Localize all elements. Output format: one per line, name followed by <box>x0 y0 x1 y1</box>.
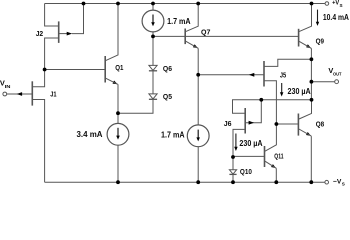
junction dot VOUT node <box>310 80 314 84</box>
wire J5 gate to Q7 emitter node <box>198 74 263 76</box>
junction dot node C <box>151 35 155 39</box>
junction dot bottom rail 3.4mA <box>116 180 120 184</box>
svg-text:10.4 mA: 10.4 mA <box>323 13 349 22</box>
wire node D to Q11 collector <box>265 124 276 151</box>
transistor Q1 <box>105 56 118 84</box>
terminal -VS <box>325 180 329 184</box>
junction dot rail J2 gate <box>82 2 86 6</box>
svg-text:1.7 mA: 1.7 mA <box>167 17 191 26</box>
junction dot bottom rail Q10 <box>231 180 235 184</box>
junction dot node B <box>116 111 120 115</box>
wire 1.7mA source 2 to bottom rail <box>197 147 199 183</box>
wire 3.4mA source to bottom rail <box>117 145 119 182</box>
transistor Q11 <box>265 146 277 168</box>
current source 3.4mA <box>107 123 129 145</box>
diode Q10 <box>229 170 236 175</box>
wire node C between diodes Q6 Q5 <box>152 36 154 65</box>
wire 1.7mA source to node C <box>152 32 154 37</box>
diode Q6 <box>149 65 157 70</box>
junction dot rail Q1 collector <box>116 2 120 6</box>
junction dot Q7 emitter J5 gate <box>196 73 200 77</box>
transistor Q8 <box>298 114 311 137</box>
JFET J2 <box>59 21 72 43</box>
junction dot bottom rail Q11 emitter <box>274 180 278 184</box>
svg-text:Q11: Q11 <box>274 151 284 160</box>
transistor Q9 <box>299 29 312 49</box>
junction dot node E <box>231 155 235 159</box>
svg-text:J5: J5 <box>280 71 287 80</box>
junction dot node D <box>275 122 279 126</box>
wire diode Q6 to diode Q5 <box>152 71 154 94</box>
svg-text:230 µA: 230 µA <box>288 87 311 96</box>
wire Q1 base <box>45 69 105 71</box>
wire VOUT stub to terminal <box>311 81 334 83</box>
wire Q1 collector to top rail <box>106 4 118 61</box>
wire J6 drain line to Q8 collector node <box>233 100 312 113</box>
junction dot J6 drain gate <box>259 98 263 102</box>
svg-text:3.4 mA: 3.4 mA <box>77 130 103 139</box>
wire J2 source to node A <box>45 38 59 70</box>
svg-text:IN: IN <box>5 84 12 89</box>
junction dot bottom rail 1.7mA <box>196 180 200 184</box>
junction dot bottom rail Q8 emitter <box>309 180 313 184</box>
wire J1 source to bottom rail <box>32 100 44 183</box>
svg-text:Q5: Q5 <box>163 92 173 101</box>
svg-text:S: S <box>342 181 345 186</box>
wire Q9 emitter down <box>310 48 312 59</box>
annotation arrow 230 uA J6 <box>234 134 238 152</box>
wire J6 gate to drain node <box>245 100 261 123</box>
junction dot Q9 emitter J5 drain <box>310 57 314 61</box>
terminal VOUT <box>335 80 339 84</box>
terminal +VS <box>325 2 329 6</box>
svg-text:1.7 mA: 1.7 mA <box>161 131 185 140</box>
svg-text:Q7: Q7 <box>201 28 210 37</box>
wire left vertical top (rail to J2 drain) <box>45 4 59 27</box>
wire base line node C to Q9 base <box>153 35 298 37</box>
wire Q9 emitter node to VOUT node <box>310 59 312 81</box>
svg-text:J2: J2 <box>36 29 44 38</box>
wire J5 drain to Q9 emitter node <box>264 59 311 66</box>
svg-text:S: S <box>340 3 343 8</box>
wire Q9 collector to top rail <box>299 4 311 32</box>
diode Q5 <box>149 94 157 99</box>
svg-text:−V: −V <box>333 179 342 186</box>
wire Q8 emitter to bottom rail <box>310 136 312 182</box>
wire J6 source down to node E <box>233 129 245 157</box>
svg-text:J6: J6 <box>224 119 232 128</box>
wire bottom -V rail <box>45 181 325 183</box>
wire Q7 emitter down to 1.7mA source 2 <box>197 48 199 125</box>
wire J5 source down to node D <box>264 81 276 124</box>
JFET J1 <box>7 81 32 105</box>
junction dot node A <box>43 68 47 72</box>
wire Q8 collector up <box>299 100 312 119</box>
wire top +V rail <box>45 3 325 5</box>
transistor Q7 <box>185 29 198 49</box>
wire node E to diode Q10 <box>232 157 234 170</box>
annotation arrow 10.4 mA <box>316 10 319 26</box>
wire node A to J1 drain <box>32 70 44 87</box>
junction dot Q8 collector J6 line <box>310 98 314 102</box>
current source 1.7mA bottom <box>187 125 209 147</box>
wire top rail to 1.7mA source <box>152 4 154 11</box>
junction dot rail Q7 collector <box>196 2 200 6</box>
current source 1.7mA top <box>142 10 164 32</box>
svg-text:J1: J1 <box>50 89 57 98</box>
wire node D to Q8 base <box>276 123 298 125</box>
wire Q7 collector to top rail <box>186 4 199 32</box>
svg-text:Q9: Q9 <box>316 37 324 46</box>
svg-text:230 µA: 230 µA <box>239 139 262 148</box>
JFET J5 <box>249 61 264 87</box>
wire VOUT node down to Q8 collector node <box>310 82 312 100</box>
wire diode Q10 to bottom rail <box>232 175 234 183</box>
junction dot rail 1.7mA <box>151 2 155 6</box>
svg-text:Q1: Q1 <box>115 63 124 72</box>
wire J2 gate to top rail <box>72 4 84 34</box>
wire node B to 3.4mA source <box>117 113 119 123</box>
JFET J6 <box>245 108 254 134</box>
wire node E to Q11 base <box>233 155 264 157</box>
terminal VIN <box>3 92 7 96</box>
svg-text:Q8: Q8 <box>316 119 325 128</box>
svg-text:Q10: Q10 <box>240 167 252 176</box>
wire Q11 emitter to bottom rail <box>275 168 277 182</box>
wire Q1 emitter to node B <box>117 84 119 113</box>
svg-text:Q6: Q6 <box>163 64 172 73</box>
svg-text:OUT: OUT <box>333 72 342 77</box>
junction dot rail Q9 collector <box>310 2 314 6</box>
annotation arrow 230 uA J5 <box>280 83 284 97</box>
wire node B to Q5 chain <box>118 100 153 113</box>
